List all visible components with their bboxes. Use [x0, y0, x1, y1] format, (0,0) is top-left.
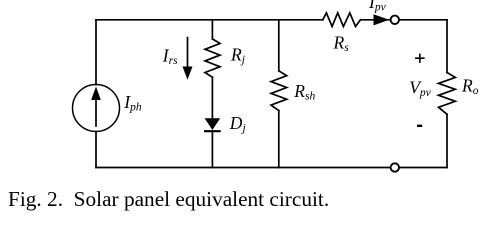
wire Rsh to bottom wire	[278, 111, 280, 168]
wire Rj to diode Dj	[211, 77, 213, 118]
svg-text:Rj: Rj	[230, 45, 245, 67]
current Ipv arrow head on top wire	[374, 14, 390, 25]
svg-text:Irs: Irs	[162, 45, 178, 67]
label minus sign	[417, 125, 422, 127]
diode Dj triangle	[205, 118, 221, 130]
output terminal top (open circle node)	[391, 16, 399, 24]
current source arrow head	[91, 87, 101, 101]
wire Rsh branch upper (top wire down to Rsh)	[278, 20, 280, 71]
wire left side lower (bottom-left corner up to current source)	[95, 132, 97, 168]
svg-text:Rsh: Rsh	[293, 81, 315, 103]
svg-text:Dj: Dj	[229, 113, 246, 135]
svg-text:Rs: Rs	[333, 33, 350, 55]
svg-text:Ro: Ro	[461, 75, 479, 97]
svg-text:Ipv: Ipv	[368, 0, 387, 14]
wire diode Dj to bottom wire	[211, 131, 213, 167]
wire Rj branch upper (top wire down to Rj)	[211, 20, 213, 39]
svg-text:Iph: Iph	[123, 92, 142, 114]
diode Dj cathode bar	[204, 130, 221, 132]
svg-text:Vpv: Vpv	[409, 77, 431, 99]
wire right side lower (Ro to bottom-right corner)	[446, 114, 448, 167]
resistor Rs (series resistor, horizontal zigzag)	[323, 13, 361, 27]
output terminal bottom (open circle node)	[391, 163, 399, 171]
wire top-left horizontal segment	[96, 19, 323, 21]
current Irs arrow shaft	[187, 38, 189, 68]
resistor Ro (load resistor, vertical zigzag)	[439, 73, 456, 115]
current Irs arrow head	[183, 67, 193, 80]
resistor Rj (junction resistor, vertical zigzag)	[205, 39, 220, 77]
wire left side upper (current source up to top-left corner)	[95, 20, 97, 85]
current source Iph circle	[73, 85, 120, 132]
svg-text:Fig. 2. Solar panel equivalen: Fig. 2. Solar panel equivalent circuit.	[8, 187, 329, 211]
label plus sign	[415, 54, 425, 63]
wire from top terminal to top-right corner	[399, 19, 447, 21]
current source arrow shaft	[95, 99, 97, 126]
wire bottom horizontal	[96, 167, 447, 169]
wire right side upper (corner down to Ro)	[446, 20, 448, 73]
wire from Rs to output terminal	[361, 19, 391, 21]
resistor Rsh (shunt resistor, vertical zigzag)	[271, 71, 287, 111]
